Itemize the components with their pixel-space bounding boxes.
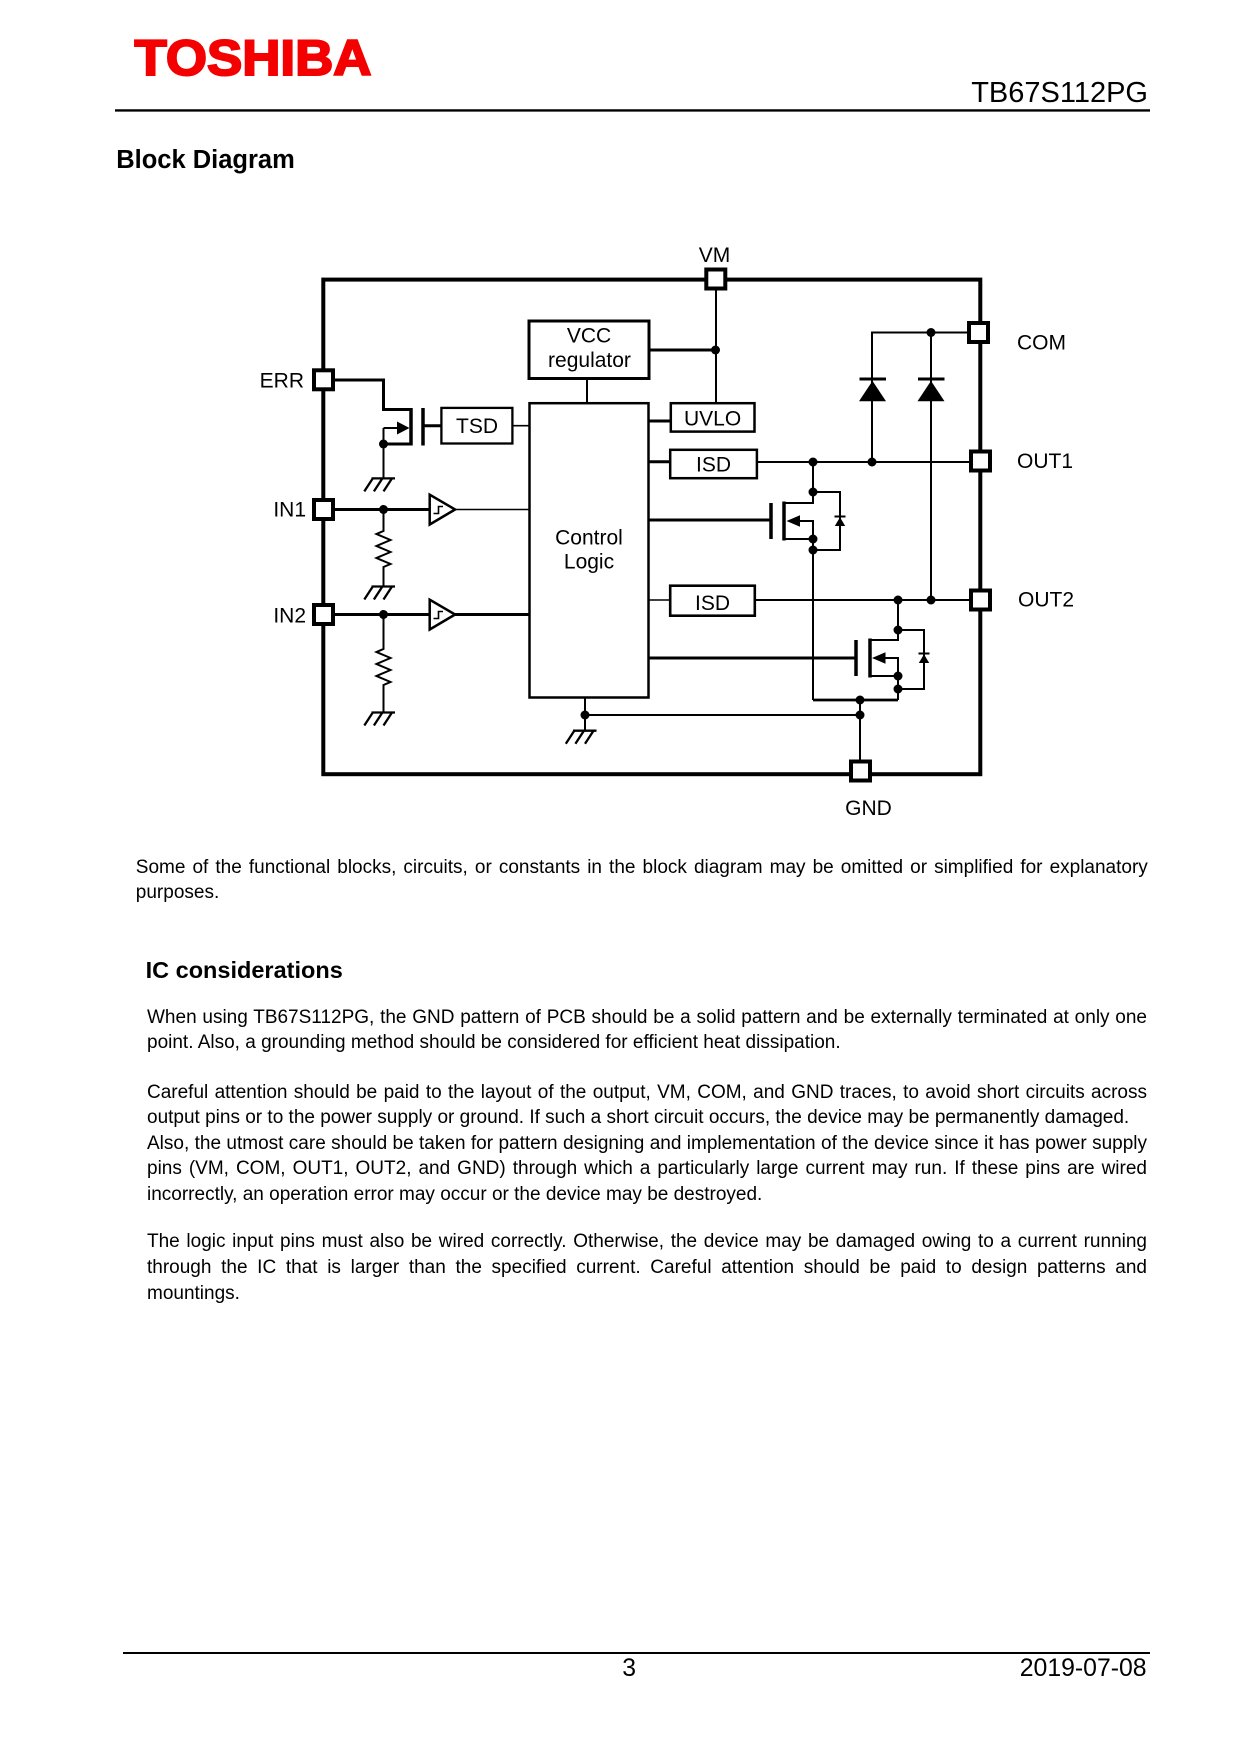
svg-text:Logic: Logic: [564, 551, 614, 574]
svg-text:Control: Control: [555, 527, 623, 550]
svg-text:IC considerations: IC considerations: [146, 957, 343, 983]
svg-text:ISD: ISD: [695, 592, 730, 615]
svg-text:OUT1: OUT1: [1017, 450, 1073, 473]
svg-text:OUT2: OUT2: [1018, 589, 1074, 612]
svg-text:2019-07-08: 2019-07-08: [1020, 1655, 1147, 1682]
svg-text:3: 3: [622, 1655, 636, 1682]
svg-text:TOSHIBA: TOSHIBA: [135, 30, 372, 86]
svg-text:IN2: IN2: [273, 605, 306, 628]
svg-text:regulator: regulator: [548, 349, 631, 372]
svg-text:IN1: IN1: [273, 499, 306, 522]
svg-text:GND: GND: [845, 797, 892, 820]
svg-text:UVLO: UVLO: [684, 408, 741, 431]
svg-text:ISD: ISD: [696, 454, 731, 477]
svg-text:VCC: VCC: [567, 325, 611, 348]
svg-text:Block Diagram: Block Diagram: [116, 146, 295, 174]
svg-text:VM: VM: [699, 244, 731, 267]
svg-text:TSD: TSD: [456, 415, 498, 438]
svg-text:COM: COM: [1017, 332, 1066, 355]
svg-text:ERR: ERR: [260, 370, 304, 393]
svg-text:TB67S112PG: TB67S112PG: [971, 77, 1148, 109]
